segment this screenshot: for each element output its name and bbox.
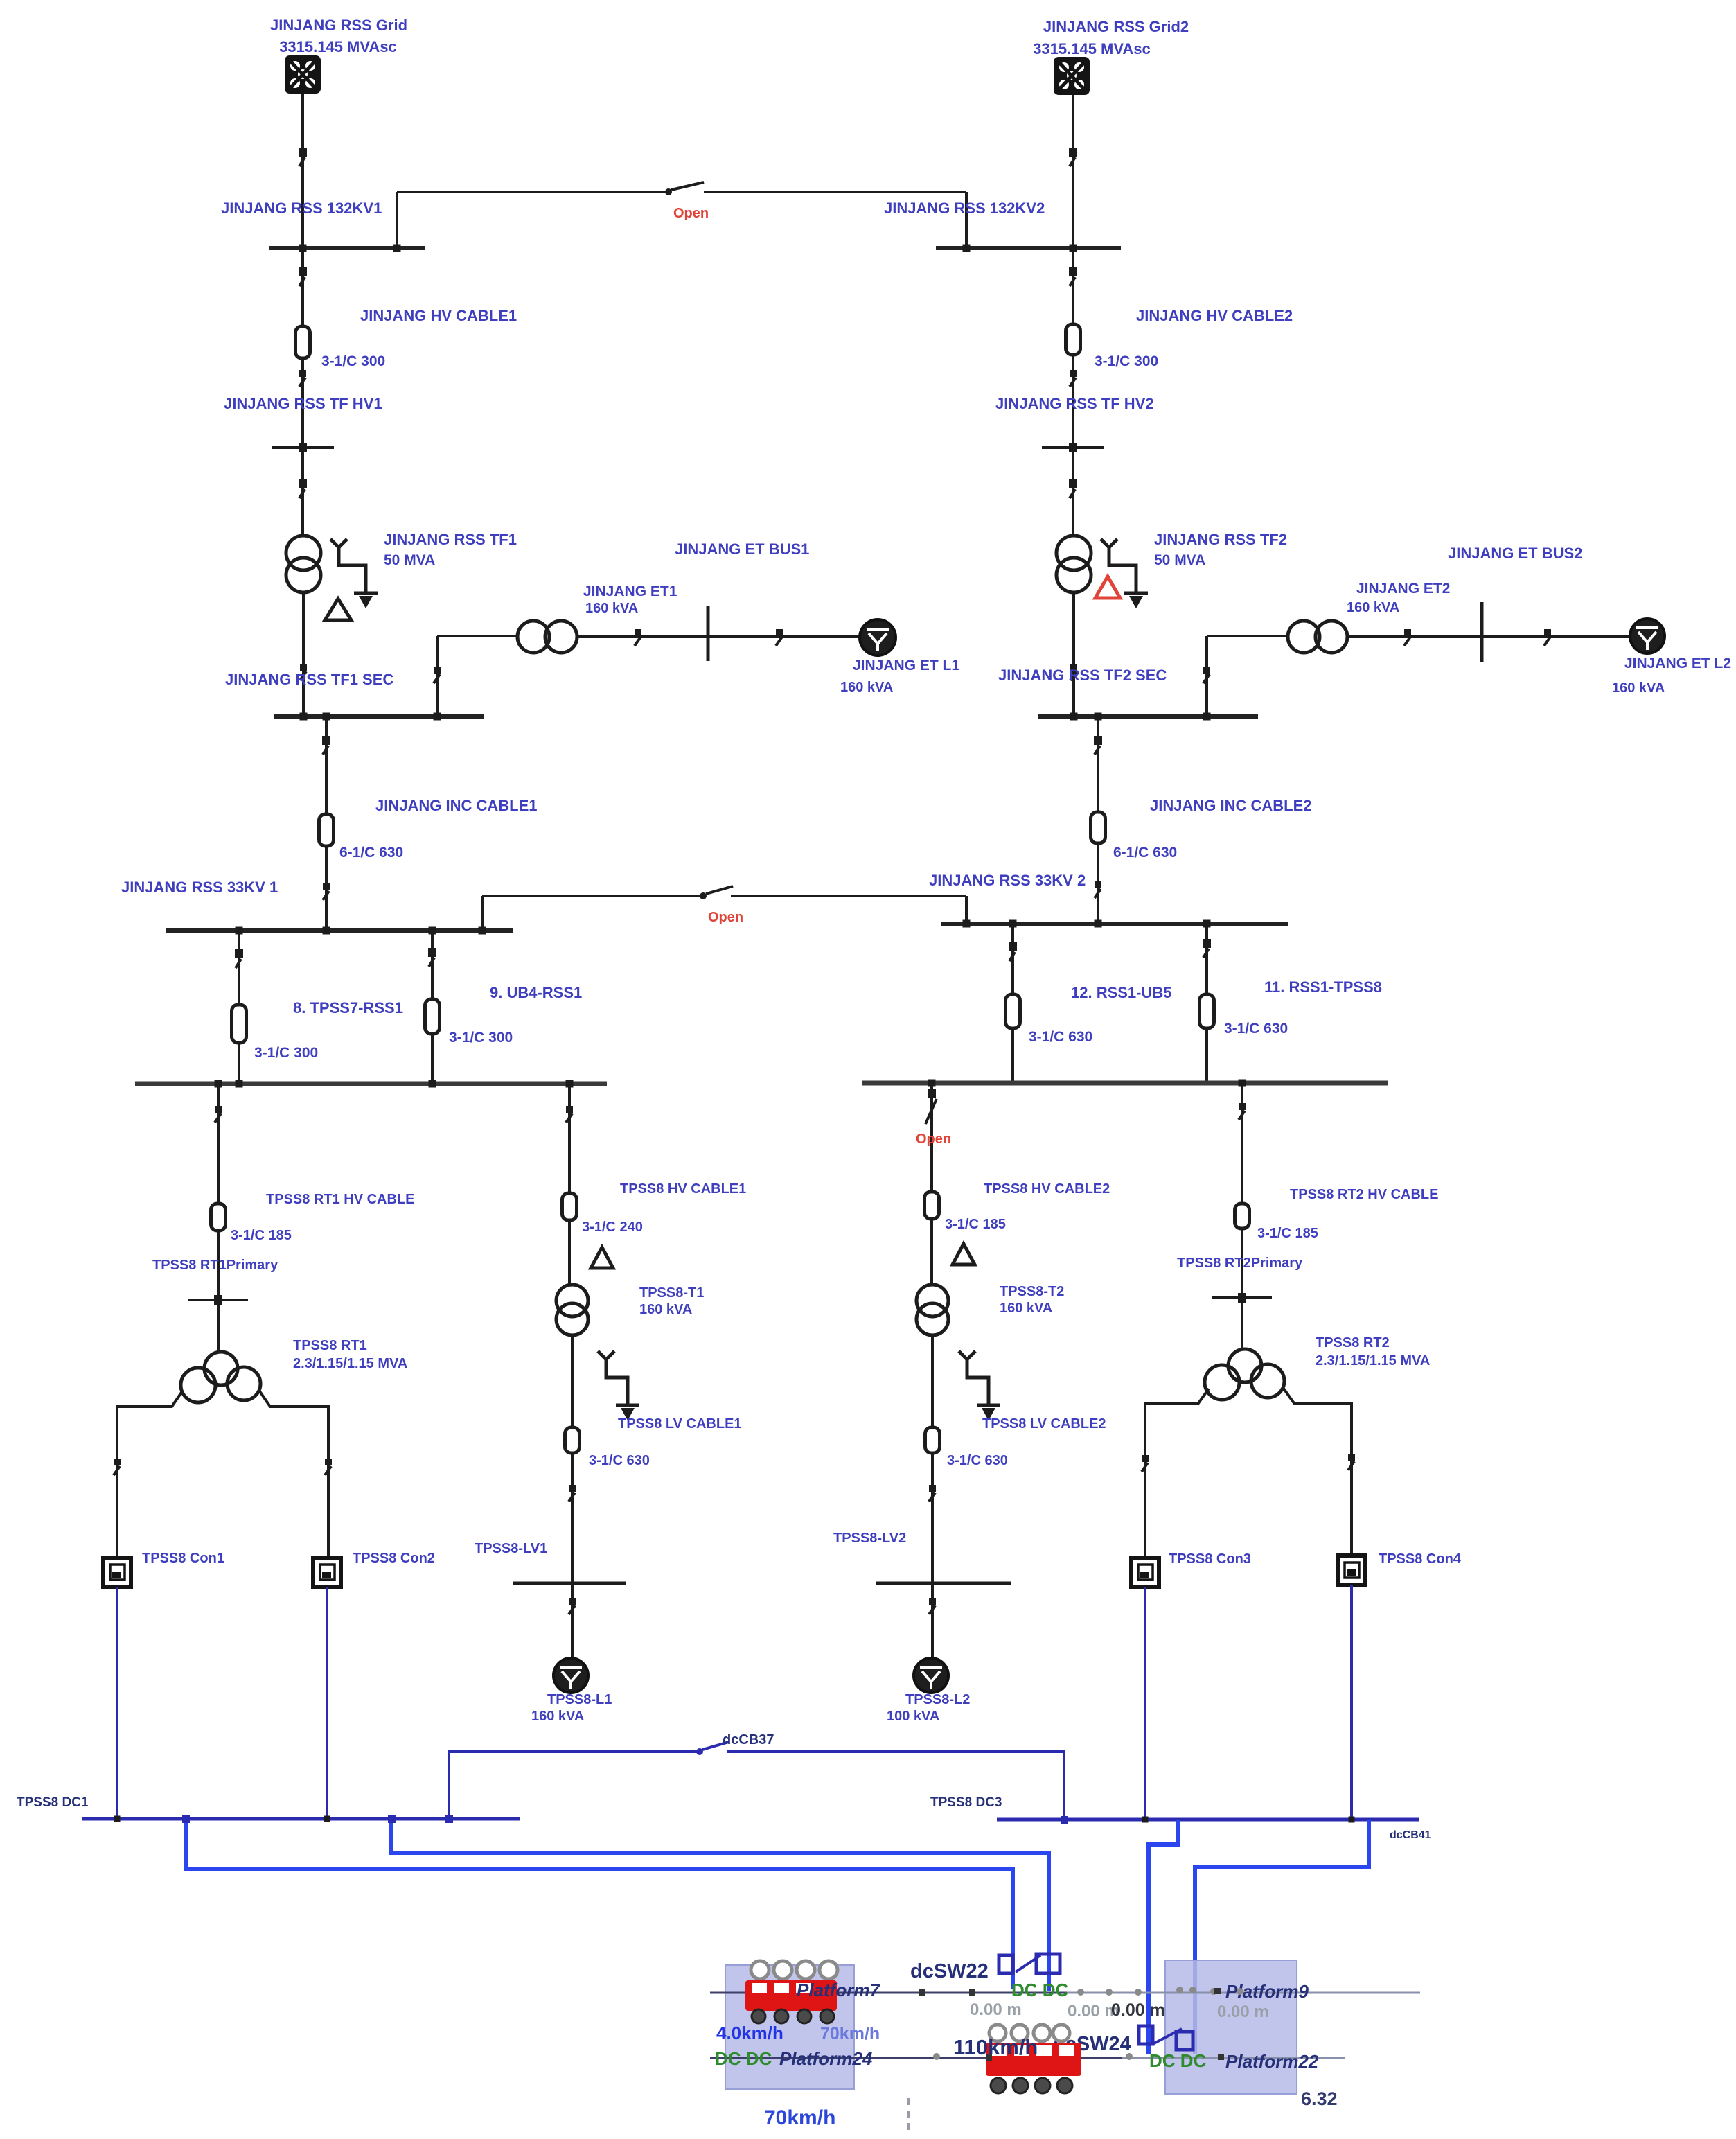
node bus2 join <box>1070 245 1077 252</box>
wire dcCB37 right leg <box>727 1752 1064 1819</box>
fuse RT2 primary <box>1212 1293 1272 1303</box>
node INC1 top join <box>323 713 330 721</box>
transformer TPSS8 RT2 <box>1205 1349 1284 1400</box>
wire 33kV tie stub right <box>965 896 968 924</box>
svg-text:DC DC: DC DC <box>715 2048 772 2069</box>
delta T1 <box>591 1247 613 1268</box>
svg-text:TPSS8-T1: TPSS8-T1 <box>639 1285 704 1301</box>
svg-text:dcCB37: dcCB37 <box>723 1732 774 1748</box>
switch INC1 low <box>323 883 330 900</box>
svg-text:3-1/C 185: 3-1/C 185 <box>945 1217 1006 1232</box>
wire track 1 right <box>1067 1992 1420 1994</box>
transformer JINJANG RSS TF2 <box>1056 536 1091 592</box>
svg-text:Platform22: Platform22 <box>1225 2051 1319 2072</box>
bus TPSS8 DC1 <box>82 1817 520 1821</box>
svg-text:3-1/C 185: 3-1/C 185 <box>1257 1226 1318 1241</box>
node INC2 bus join <box>1095 920 1102 928</box>
svg-text:TPSS8 RT1Primary: TPSS8 RT1Primary <box>152 1258 278 1273</box>
fuse JINJANG RSS TF HV1 <box>272 443 334 452</box>
switch L1 <box>569 1598 576 1614</box>
wire Con3 to DC3 <box>1144 1587 1146 1820</box>
node f8 join <box>236 927 243 935</box>
fuse JINJANG RSS TF HV2 <box>1042 443 1104 452</box>
svg-text:JINJANG RSS 33KV 1: JINJANG RSS 33KV 1 <box>121 879 278 896</box>
svg-text:3-1/C 630: 3-1/C 630 <box>947 1453 1008 1468</box>
svg-text:160 kVA: 160 kVA <box>840 680 893 695</box>
svg-text:TPSS8 LV CABLE1: TPSS8 LV CABLE1 <box>618 1416 742 1432</box>
load JINJANG ET L2 <box>1630 619 1665 653</box>
wire TPSS8 HV CABLE2 feeder <box>930 1083 933 1285</box>
svg-text:JINJANG RSS Grid: JINJANG RSS Grid <box>270 17 407 34</box>
svg-text:2.3/1.15/1.15 MVA: 2.3/1.15/1.15 MVA <box>293 1356 407 1371</box>
svg-text:3315.145 MVAsc: 3315.145 MVAsc <box>279 38 397 55</box>
node INC2 top join <box>1095 713 1102 721</box>
switch T2 lv <box>929 1485 936 1502</box>
wire TF1 to SEC bus <box>302 592 305 716</box>
wire TPSS8 RT2 feeder <box>1241 1083 1243 1349</box>
svg-text:TPSS8 RT1 HV CABLE: TPSS8 RT1 HV CABLE <box>266 1192 414 1207</box>
wire ET1 feeder horizontal <box>437 635 517 637</box>
node INC1 bus join <box>323 927 330 935</box>
switch L2 <box>929 1598 936 1614</box>
switch RT1 con1 <box>114 1459 121 1475</box>
svg-text:160 kVA: 160 kVA <box>585 601 638 616</box>
svg-text:Open: Open <box>708 910 743 925</box>
wire bus2 down HV cable2 <box>1072 248 1074 536</box>
bus JINJANG RSS TF2 SEC <box>1038 714 1258 719</box>
breaker feeder11 <box>1203 939 1211 958</box>
svg-text:6-1/C 630: 6-1/C 630 <box>1113 845 1177 861</box>
node f12 join <box>1009 920 1017 928</box>
wire Con2 to DC1 <box>326 1587 328 1819</box>
wire tie2 stub to bus2 <box>965 192 968 246</box>
svg-text:TPSS8-T2: TPSS8-T2 <box>1000 1284 1064 1299</box>
wye ground T1 <box>598 1351 639 1420</box>
wire DC1 feeder B <box>186 1819 1013 1989</box>
wire grid1 to bus 132KV1 <box>301 94 304 248</box>
switch dcCB37 open <box>696 1742 729 1755</box>
svg-text:3-1/C 300: 3-1/C 300 <box>254 1045 318 1061</box>
svg-text:Open: Open <box>673 206 709 221</box>
bus JINJANG RSS TF1 SEC <box>274 714 484 719</box>
converter TPSS8 Con1 <box>103 1558 131 1587</box>
wire 132kV tie right <box>704 191 966 193</box>
bus JINJANG RSS 33KV 1 <box>166 928 513 933</box>
node tie2 stub <box>963 245 971 252</box>
dashed stop marker <box>907 2098 910 2134</box>
breaker CB grid1 <box>299 148 307 166</box>
converter TPSS8 Con4 <box>1338 1556 1365 1585</box>
switch TF2 sec <box>1070 664 1077 680</box>
svg-text:0.00 m: 0.00 m <box>1217 2002 1269 2021</box>
svg-text:TPSS8 RT2 HV CABLE: TPSS8 RT2 HV CABLE <box>1290 1187 1438 1202</box>
switch ET2 b <box>1544 629 1551 646</box>
load JINJANG ET L1 <box>860 619 896 655</box>
wire 33kV tie right <box>731 895 966 897</box>
node RT2 top join <box>1239 1080 1246 1087</box>
bus TPSS8 DC3 <box>997 1818 1419 1822</box>
node DC3 con4 <box>1349 1817 1355 1823</box>
node f9 join <box>429 927 436 935</box>
wire dcCB37 left leg <box>449 1752 698 1819</box>
wire TPSS8 HV CABLE1 feeder <box>568 1084 571 1285</box>
wire feeder 8 TPSS7-RSS1 <box>238 931 240 1084</box>
node DC1 cb37 <box>445 1815 453 1823</box>
svg-text:3315.145 MVAsc: 3315.145 MVAsc <box>1033 40 1151 58</box>
svg-text:100 kVA: 100 kVA <box>887 1709 939 1724</box>
svg-text:JINJANG RSS TF1 SEC: JINJANG RSS TF1 SEC <box>225 671 393 688</box>
cable feeder 12 <box>1006 994 1020 1028</box>
transformer JINJANG ET2 <box>1288 621 1347 653</box>
platform Platform7 area <box>725 1965 854 2089</box>
cable TPSS8 LV CABLE2 sym <box>925 1427 940 1453</box>
svg-text:TPSS8 RT1: TPSS8 RT1 <box>293 1338 367 1353</box>
svg-text:JINJANG RSS 33KV 2: JINJANG RSS 33KV 2 <box>929 872 1086 889</box>
svg-text:160 kVA: 160 kVA <box>1000 1301 1052 1316</box>
svg-text:3-1/C 300: 3-1/C 300 <box>1095 353 1158 369</box>
wire 33kV tie left <box>482 895 702 897</box>
svg-text:JINJANG HV CABLE1: JINJANG HV CABLE1 <box>360 307 517 324</box>
wire LV2 to load <box>931 1583 934 1659</box>
switch T1 lv <box>569 1485 576 1502</box>
svg-text:2.3/1.15/1.15 MVA: 2.3/1.15/1.15 MVA <box>1316 1353 1430 1368</box>
svg-text:11. RSS1-TPSS8: 11. RSS1-TPSS8 <box>1264 978 1382 996</box>
svg-text:TPSS8 Con3: TPSS8 Con3 <box>1169 1551 1251 1567</box>
transformer TPSS8-T2 <box>916 1285 948 1335</box>
svg-text:DC DC: DC DC <box>1011 1980 1069 2000</box>
wire track 2 right <box>1122 2057 1345 2059</box>
breaker below bus2 <box>1069 267 1077 286</box>
svg-text:JINJANG RSS TF HV2: JINJANG RSS TF HV2 <box>995 395 1154 412</box>
wire ET1 to bus tick <box>578 635 708 638</box>
load TPSS8-L2 <box>914 1658 948 1693</box>
svg-text:JINJANG RSS 132KV2: JINJANG RSS 132KV2 <box>884 200 1045 217</box>
breaker CB grid2 <box>1069 148 1077 166</box>
svg-text:TPSS8 HV CABLE1: TPSS8 HV CABLE1 <box>620 1181 746 1197</box>
cable JINJANG HV CABLE1 <box>296 326 310 358</box>
svg-text:12. RSS1-UB5: 12. RSS1-UB5 <box>1071 984 1172 1001</box>
svg-text:160 kVA: 160 kVA <box>531 1709 584 1724</box>
svg-text:160 kVA: 160 kVA <box>1612 680 1665 696</box>
node ET2 drop join <box>1203 713 1211 721</box>
wire TPSS8 RT1 feeder <box>217 1084 220 1352</box>
breaker TF1 primary <box>299 479 307 498</box>
cable feeder 8 <box>232 1005 247 1043</box>
svg-text:50 MVA: 50 MVA <box>384 552 435 568</box>
cable feeder 9 <box>425 999 440 1034</box>
wire JINJANG INC CABLE2 <box>1097 716 1099 924</box>
svg-text:JINJANG RSS 132KV1: JINJANG RSS 132KV1 <box>221 200 382 217</box>
cable JINJANG INC CABLE1 sym <box>319 814 334 846</box>
svg-text:TPSS8-LV1: TPSS8-LV1 <box>475 1541 547 1556</box>
bus JINJANG RSS 132KV1 <box>269 246 425 250</box>
wire ET2 feeder horizontal <box>1207 635 1288 637</box>
node DC3 cb37 <box>1061 1816 1068 1824</box>
svg-text:TPSS8-L2: TPSS8-L2 <box>905 1692 970 1707</box>
fuse RT1 primary <box>188 1295 248 1305</box>
bus JINJANG ET BUS2 tick <box>1480 602 1484 662</box>
wire ET2 to bus tick <box>1347 635 1482 638</box>
svg-text:TPSS8 RT2: TPSS8 RT2 <box>1316 1335 1390 1350</box>
breaker TF2 primary <box>1069 479 1077 498</box>
bus TPSS8 33kV right <box>862 1081 1388 1086</box>
switch ET1 b <box>776 629 783 646</box>
switch RT1 top <box>215 1106 222 1123</box>
wire RT2 left secondary <box>1145 1389 1209 1558</box>
svg-text:50 MVA: 50 MVA <box>1154 552 1205 568</box>
wire ET1 drop to SEC bus <box>436 636 439 716</box>
delta T2 <box>953 1244 975 1265</box>
utility grid JINJANG RSS Grid2 <box>1054 57 1090 95</box>
wire RT1 left secondary <box>117 1391 182 1558</box>
switch tie 33kV open <box>700 886 733 899</box>
svg-text:JINJANG ET2: JINJANG ET2 <box>1356 581 1450 597</box>
svg-text:3-1/C 300: 3-1/C 300 <box>321 353 385 369</box>
svg-text:3-1/C 630: 3-1/C 630 <box>589 1453 650 1468</box>
wire grid2 to bus 132KV2 <box>1072 95 1074 248</box>
switch RT1 con2 <box>325 1459 332 1475</box>
wire DC3 feeder A <box>1149 1820 1178 2054</box>
converter TPSS8 Con2 <box>313 1558 341 1587</box>
train 2 <box>986 2025 1081 2093</box>
cable TPSS8 LV CABLE1 sym <box>565 1427 580 1453</box>
load TPSS8-L1 <box>553 1658 588 1693</box>
cable feeder 11 <box>1200 994 1214 1028</box>
breaker INC2 <box>1094 736 1102 755</box>
wire T2 to LV2 <box>931 1335 934 1583</box>
wire JINJANG INC CABLE1 <box>325 716 328 931</box>
bus TPSS8 33kV left <box>135 1082 607 1086</box>
svg-text:JINJANG RSS TF1: JINJANG RSS TF1 <box>384 531 517 548</box>
wye ground TF1 <box>330 539 378 608</box>
svg-text:6.32: 6.32 <box>1301 2088 1338 2109</box>
transformer JINJANG RSS TF1 <box>286 536 321 592</box>
node ET1 drop join <box>434 713 441 721</box>
svg-text:JINJANG RSS TF HV1: JINJANG RSS TF HV1 <box>224 395 382 412</box>
wire Con1 to DC1 <box>116 1587 118 1819</box>
switch RT2 con4 <box>1348 1454 1355 1470</box>
wire bus1 down HV cable1 <box>301 248 304 536</box>
cable JINJANG INC CABLE2 sym <box>1091 812 1106 843</box>
breaker feeder12 <box>1009 942 1017 961</box>
switch INC2 low <box>1095 881 1101 898</box>
svg-text:TPSS8 Con4: TPSS8 Con4 <box>1379 1551 1462 1567</box>
svg-text:DC DC: DC DC <box>1149 2050 1207 2071</box>
node tie33 stub1 <box>479 927 486 935</box>
node DC3 con3 <box>1142 1817 1149 1823</box>
wire RT2 right secondary <box>1284 1389 1352 1556</box>
track marker dots <box>919 1987 1243 2061</box>
svg-text:dcCB41: dcCB41 <box>1390 1829 1431 1841</box>
breaker feeder8 <box>235 949 243 968</box>
svg-text:Platform24: Platform24 <box>779 2048 873 2069</box>
svg-text:160 kVA: 160 kVA <box>1347 600 1399 615</box>
svg-text:TPSS8 Con1: TPSS8 Con1 <box>142 1551 224 1566</box>
wye ground T2 <box>959 1351 1000 1420</box>
svg-text:6-1/C 630: 6-1/C 630 <box>339 845 403 861</box>
wire track 2 <box>710 2057 1122 2059</box>
wire ET bus2 to load L2 <box>1482 635 1629 638</box>
wye ground TF2 <box>1101 539 1148 608</box>
switch ET1 a <box>635 629 641 646</box>
cable TPSS8 HV CABLE1 sym <box>563 1193 577 1220</box>
transformer TPSS8 RT1 <box>181 1352 260 1402</box>
transformer TPSS8-T1 <box>556 1285 588 1335</box>
svg-text:JINJANG RSS TF2 SEC: JINJANG RSS TF2 SEC <box>998 667 1167 684</box>
node bus1 join <box>299 245 307 252</box>
bus JINJANG ET BUS1 tick <box>707 606 710 661</box>
switch TF1 sec <box>300 664 307 680</box>
bus TPSS8-LV1 tick <box>513 1582 626 1585</box>
svg-text:JINJANG RSS Grid2: JINJANG RSS Grid2 <box>1043 18 1189 35</box>
svg-text:110km/h: 110km/h <box>953 2035 1038 2059</box>
wire 33kV tie stub left <box>481 896 484 931</box>
platform Platform9 area <box>1165 1960 1297 2094</box>
cable TPSS8 RT1 HV <box>211 1204 226 1231</box>
svg-text:TPSS8-L1: TPSS8-L1 <box>547 1692 612 1707</box>
svg-text:TPSS8 LV CABLE2: TPSS8 LV CABLE2 <box>982 1416 1106 1432</box>
cable TPSS8 RT2 HV <box>1235 1204 1250 1229</box>
wire TF2 to SEC bus <box>1072 592 1075 716</box>
node TF1 sec join <box>300 713 308 721</box>
node T1 top join <box>566 1080 574 1088</box>
wire Con4 to DC3 <box>1350 1585 1353 1820</box>
delta winding TF2 alert <box>1095 576 1120 598</box>
wire feeder 11 RSS1-TPSS8 <box>1205 924 1208 1083</box>
svg-text:3-1/C 185: 3-1/C 185 <box>231 1228 292 1243</box>
svg-text:JINJANG INC CABLE2: JINJANG INC CABLE2 <box>1150 797 1311 814</box>
switch above TF HV1 <box>299 370 306 387</box>
switch dcSW24 <box>1139 2026 1193 2050</box>
switch above TF HV2 <box>1070 370 1077 387</box>
svg-text:JINJANG ET L2: JINJANG ET L2 <box>1624 655 1731 671</box>
node DC1 con2 <box>324 1816 330 1822</box>
svg-text:TPSS8-LV2: TPSS8-LV2 <box>833 1531 906 1546</box>
svg-text:JINJANG ET1: JINJANG ET1 <box>583 583 677 599</box>
svg-text:3-1/C 300: 3-1/C 300 <box>449 1030 513 1046</box>
svg-text:TPSS8 DC3: TPSS8 DC3 <box>930 1795 1002 1810</box>
wire ET bus1 to load L1 <box>708 635 860 638</box>
svg-text:TPSS8 RT2Primary: TPSS8 RT2Primary <box>1177 1256 1303 1271</box>
delta winding TF1 <box>325 599 351 620</box>
svg-text:JINJANG ET BUS1: JINJANG ET BUS1 <box>675 540 809 558</box>
wire 132kV tie left <box>397 191 667 193</box>
svg-text:70km/h: 70km/h <box>764 2106 835 2129</box>
svg-text:dcSW22: dcSW22 <box>910 1960 989 1982</box>
switch ET2 a <box>1404 629 1411 646</box>
node f8 low join <box>236 1080 243 1088</box>
node tie1 stub <box>393 245 401 252</box>
breaker below bus1 <box>299 267 307 286</box>
node DC1 con1 <box>114 1816 121 1822</box>
node DC1 B <box>182 1815 190 1823</box>
wire DC3 feeder B <box>1195 1820 1369 2054</box>
svg-text:Open: Open <box>916 1132 951 1147</box>
bus JINJANG RSS 132KV2 <box>936 246 1121 250</box>
wire RT1 right secondary <box>260 1391 328 1558</box>
breaker feeder9 <box>428 948 436 967</box>
wire LV1 to load <box>571 1583 574 1659</box>
svg-text:JINJANG INC CABLE1: JINJANG INC CABLE1 <box>375 797 537 814</box>
switch ET1 drop <box>434 667 441 683</box>
node tie33 stub2 <box>963 920 971 928</box>
bus JINJANG RSS 33KV 2 <box>941 922 1288 926</box>
svg-text:3-1/C 630: 3-1/C 630 <box>1029 1029 1092 1045</box>
wire feeder 12 RSS1-UB5 <box>1011 924 1014 1083</box>
breaker INC1 <box>322 736 330 755</box>
node TF2 sec join <box>1070 713 1078 721</box>
svg-text:0.00 m: 0.00 m <box>1111 2000 1165 2020</box>
wire T1 to LV1 <box>571 1335 574 1583</box>
svg-text:TPSS8 HV CABLE2: TPSS8 HV CABLE2 <box>984 1181 1110 1197</box>
svg-text:JINJANG RSS TF2: JINJANG RSS TF2 <box>1154 531 1287 548</box>
node T2 top join <box>928 1080 936 1087</box>
switch tie 132kV open <box>665 182 704 195</box>
converter TPSS8 Con3 <box>1131 1558 1159 1587</box>
svg-text:0.00 m: 0.00 m <box>970 2000 1022 2019</box>
svg-text:3-1/C 240: 3-1/C 240 <box>582 1220 643 1235</box>
svg-text:JINJANG HV CABLE2: JINJANG HV CABLE2 <box>1136 307 1293 324</box>
svg-text:9. UB4-RSS1: 9. UB4-RSS1 <box>490 984 582 1001</box>
node RT1 top join <box>215 1080 222 1088</box>
svg-text:TPSS8 DC1: TPSS8 DC1 <box>17 1795 89 1810</box>
switch T2 open <box>925 1089 937 1124</box>
wire DC1 feeder A <box>391 1819 1049 1991</box>
switch dcSW22 <box>999 1954 1060 1973</box>
svg-text:TPSS8 Con2: TPSS8 Con2 <box>353 1551 435 1566</box>
svg-text:70km/h: 70km/h <box>820 2024 880 2043</box>
svg-text:Platform7: Platform7 <box>797 1980 880 2000</box>
wire track 1 <box>710 1992 1067 1994</box>
utility grid JINJANG RSS Grid <box>285 55 321 94</box>
svg-text:8. TPSS7-RSS1: 8. TPSS7-RSS1 <box>293 999 403 1016</box>
node f11 join <box>1203 920 1211 928</box>
svg-text:3-1/C 630: 3-1/C 630 <box>1224 1021 1288 1037</box>
svg-text:160 kVA: 160 kVA <box>639 1302 692 1317</box>
switch RT2 top <box>1239 1103 1246 1120</box>
switch T1 top <box>566 1106 573 1123</box>
svg-text:JINJANG ET BUS2: JINJANG ET BUS2 <box>1448 545 1582 562</box>
wire tie1 stub to bus1 <box>396 192 398 246</box>
wire ET2 drop to SEC bus <box>1205 636 1208 716</box>
svg-text:4.0km/h: 4.0km/h <box>716 2023 783 2043</box>
node f9 low join <box>429 1080 436 1088</box>
node DC1 A <box>388 1815 396 1823</box>
switch RT2 con3 <box>1142 1455 1149 1472</box>
switch ET2 drop <box>1203 667 1210 683</box>
svg-text:JINJANG ET L1: JINJANG ET L1 <box>853 658 959 674</box>
wire feeder 9 UB4-RSS1 <box>431 931 434 1084</box>
cable JINJANG HV CABLE2 <box>1066 324 1081 355</box>
cable TPSS8 HV CABLE2 sym <box>925 1192 939 1219</box>
bus TPSS8-LV2 tick <box>876 1582 1011 1585</box>
transformer JINJANG ET1 <box>517 621 577 653</box>
train 1 <box>745 1961 838 2023</box>
